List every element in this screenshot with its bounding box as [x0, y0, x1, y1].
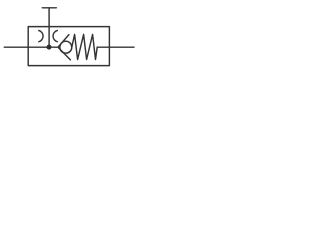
wire left port stub — [4, 46, 28, 48]
wire internal flow line — [28, 46, 58, 48]
check valve seat upper line — [58, 35, 69, 48]
wire spring to right port — [97, 46, 109, 48]
pilot piston right arc ( — [53, 31, 57, 42]
check valve ball — [60, 41, 72, 53]
check valve seat lower line — [58, 47, 70, 60]
valve body box — [28, 27, 109, 66]
node junction dot — [47, 45, 52, 50]
wire pilot line — [48, 8, 50, 47]
wire right port stub — [109, 46, 134, 48]
pilot piston left arc ) — [39, 31, 43, 42]
pilot port blocked T-bar — [42, 7, 56, 9]
spring — [72, 34, 97, 59]
